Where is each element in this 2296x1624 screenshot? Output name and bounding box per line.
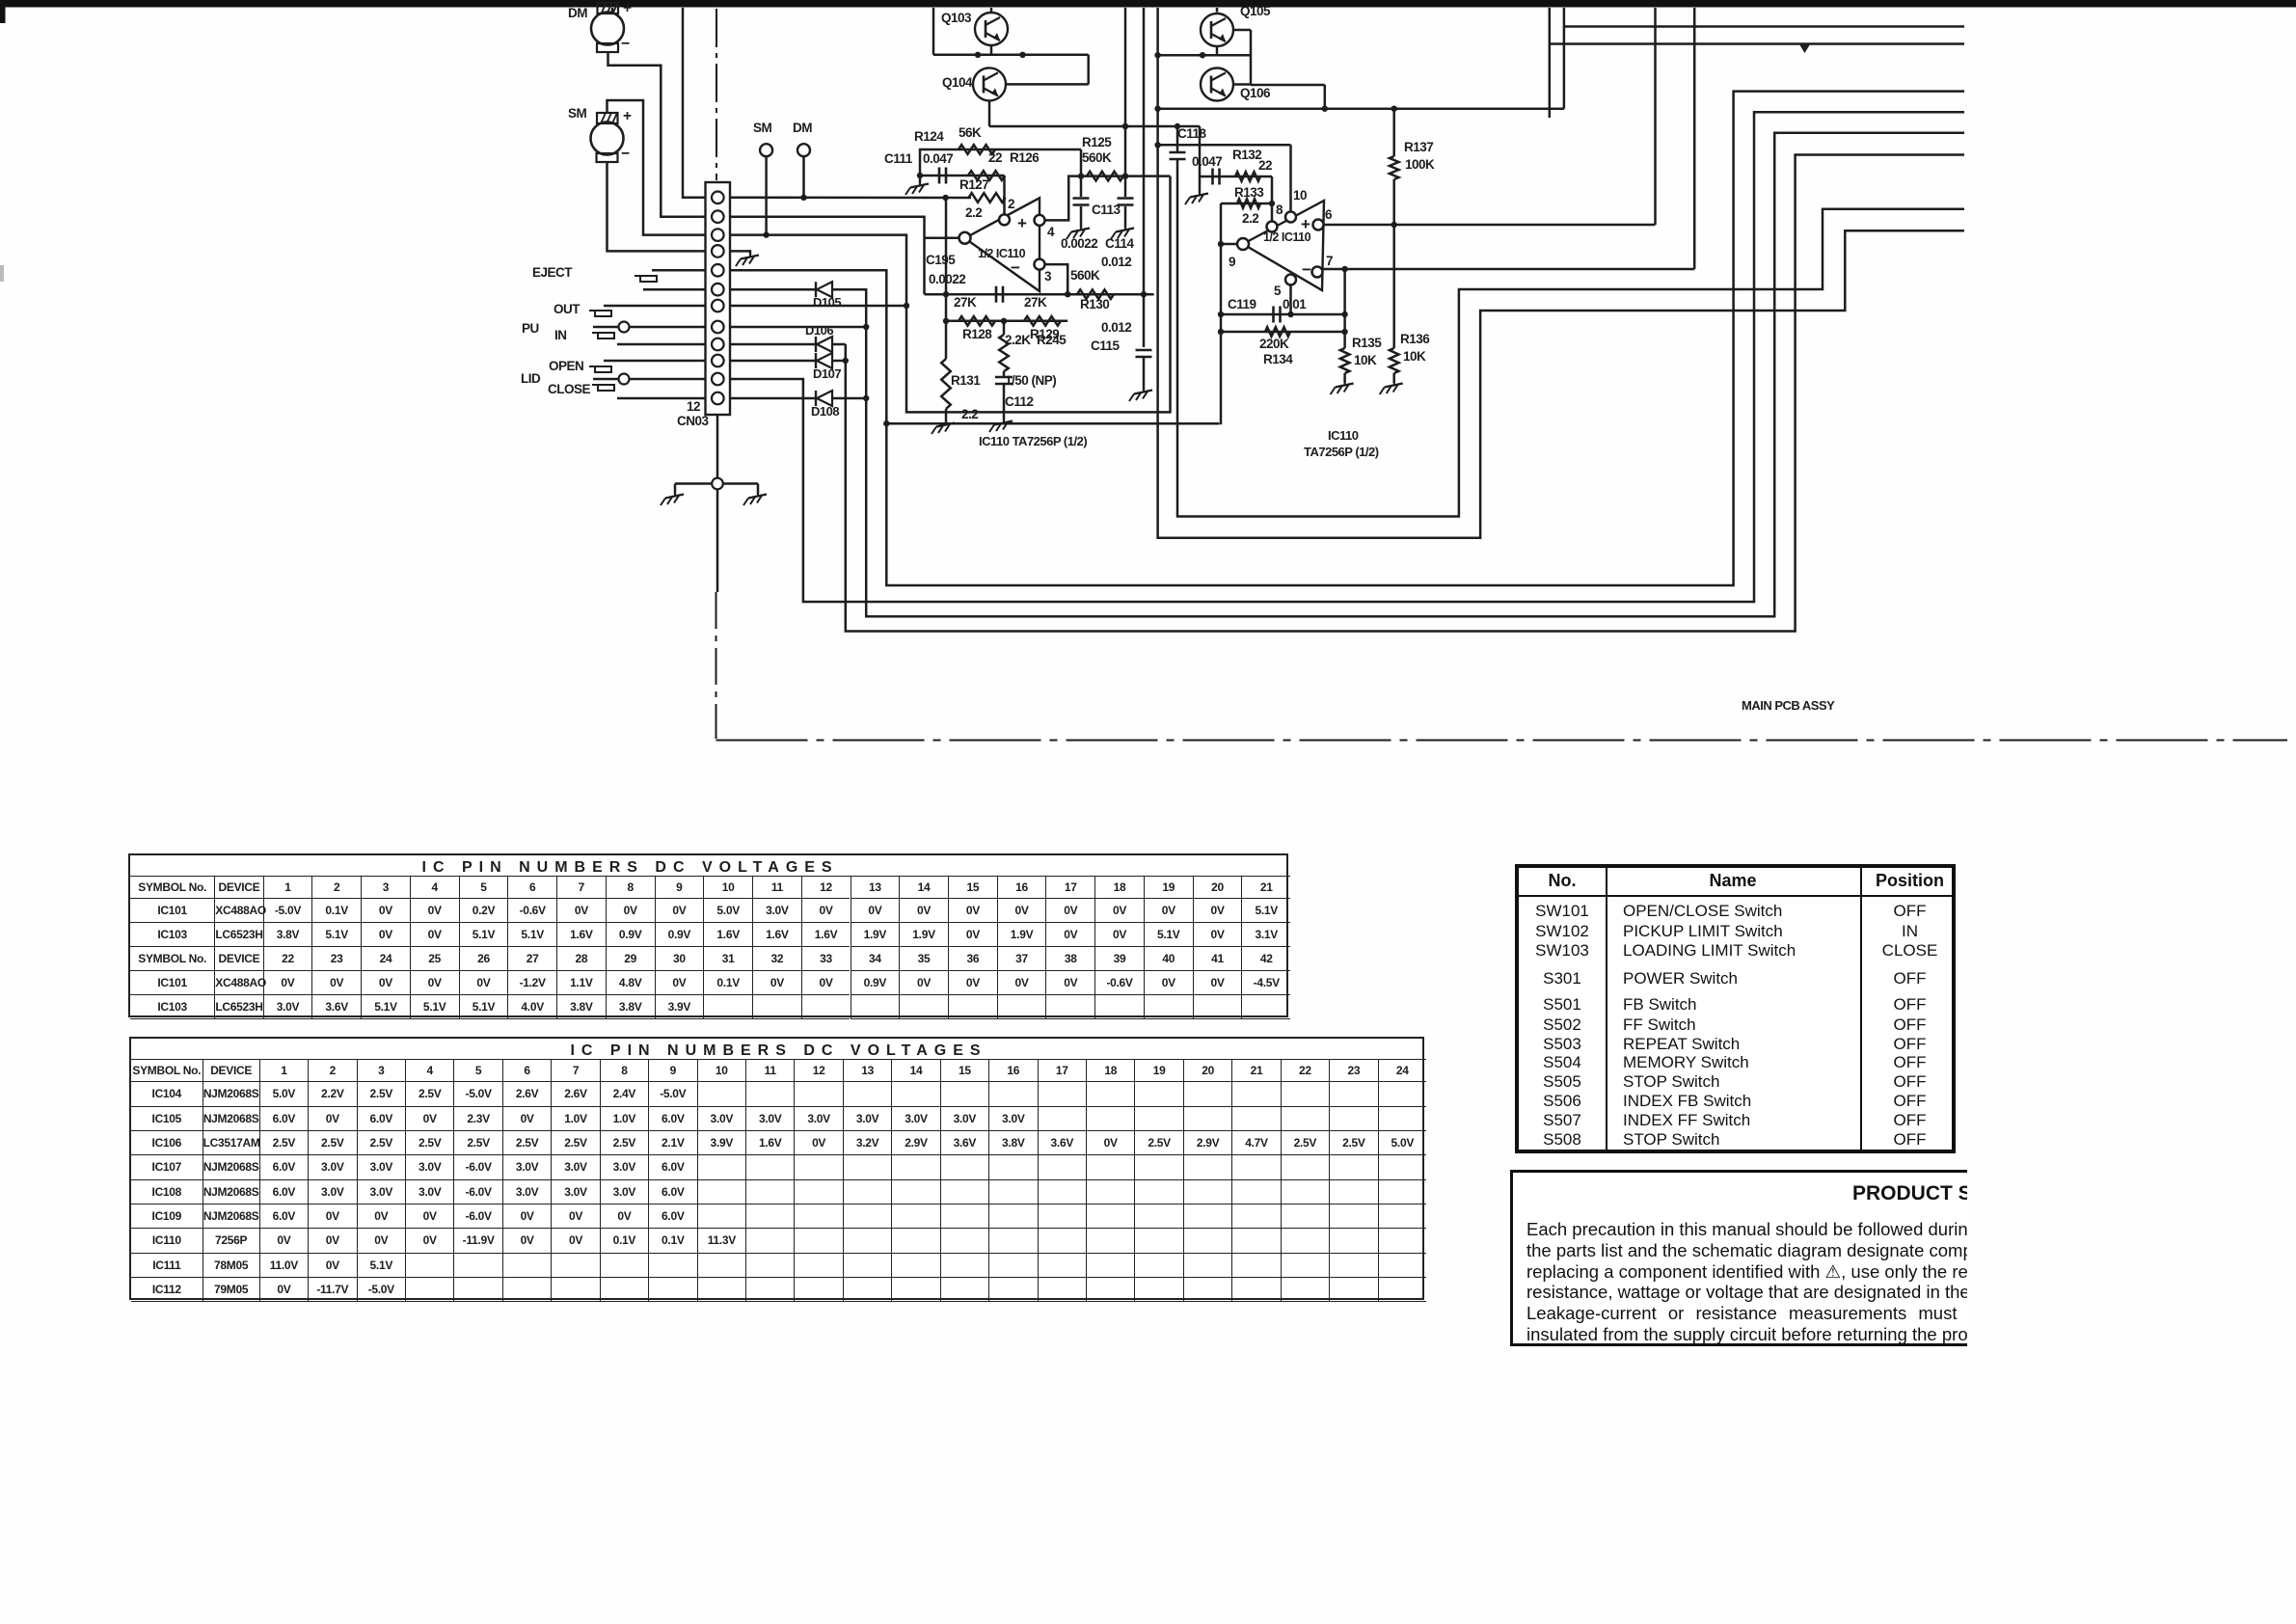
svg-text:LID: LID (521, 371, 541, 386)
svg-text:EJECT: EJECT (532, 265, 573, 280)
svg-text:6: 6 (1325, 207, 1333, 222)
svg-text:PU: PU (522, 321, 539, 336)
svg-text:+: + (623, 108, 632, 124)
svg-text:9: 9 (1229, 255, 1235, 269)
svg-text:R126: R126 (1010, 150, 1040, 165)
svg-text:560K: 560K (1070, 268, 1100, 283)
svg-text:R245: R245 (1037, 333, 1067, 347)
svg-text:3: 3 (1044, 269, 1052, 284)
svg-text:4: 4 (1047, 225, 1055, 239)
svg-text:22: 22 (988, 150, 1002, 165)
svg-text:27K: 27K (954, 295, 977, 310)
svg-text:10: 10 (1293, 188, 1307, 203)
svg-text:R134: R134 (1263, 352, 1293, 366)
svg-text:12: 12 (687, 399, 700, 414)
svg-text:0.01: 0.01 (1283, 297, 1307, 311)
svg-text:0.047: 0.047 (1192, 154, 1222, 169)
svg-text:0.047: 0.047 (923, 151, 953, 166)
svg-text:R131: R131 (951, 373, 981, 388)
svg-text:Q105: Q105 (1240, 4, 1271, 18)
svg-text:R128: R128 (962, 327, 992, 341)
svg-text:+: + (1017, 214, 1027, 232)
svg-text:DM: DM (793, 121, 812, 135)
svg-text:OPEN: OPEN (549, 359, 583, 373)
svg-text:2.2: 2.2 (965, 205, 982, 220)
svg-text:C113: C113 (1092, 203, 1121, 217)
svg-text:27K: 27K (1024, 295, 1047, 310)
svg-text:0.0022: 0.0022 (1061, 236, 1097, 251)
svg-text:1/2 IC110: 1/2 IC110 (1263, 230, 1311, 244)
svg-text:DM: DM (568, 6, 587, 20)
svg-text:−: − (1302, 260, 1311, 279)
svg-text:R136: R136 (1400, 332, 1430, 346)
svg-text:C114: C114 (1105, 236, 1135, 251)
svg-text:56K: 56K (959, 125, 982, 140)
svg-text:Q103: Q103 (941, 11, 972, 25)
svg-text:10K: 10K (1354, 353, 1377, 367)
svg-text:C112: C112 (1005, 394, 1034, 409)
svg-text:R130: R130 (1080, 297, 1109, 311)
svg-text:5: 5 (1274, 284, 1282, 298)
svg-text:R133: R133 (1234, 185, 1264, 200)
svg-text:D107: D107 (813, 366, 841, 381)
svg-text:2.2: 2.2 (1242, 211, 1258, 226)
svg-text:SM: SM (753, 121, 772, 135)
svg-text:R132: R132 (1232, 148, 1261, 162)
svg-text:TA7256P (1/2): TA7256P (1/2) (1304, 445, 1379, 459)
svg-text:−: − (621, 146, 630, 162)
svg-text:7: 7 (1326, 254, 1333, 268)
svg-text:Q104: Q104 (942, 75, 973, 90)
svg-text:2: 2 (1008, 197, 1014, 211)
svg-text:100K: 100K (1405, 157, 1435, 172)
svg-text:CN03: CN03 (677, 414, 710, 428)
svg-text:0.012: 0.012 (1101, 320, 1131, 335)
svg-text:C195: C195 (926, 253, 956, 267)
svg-text:IC110 TA7256P (1/2): IC110 TA7256P (1/2) (979, 434, 1087, 448)
svg-text:D106: D106 (805, 323, 833, 338)
svg-text:560K: 560K (1082, 150, 1112, 165)
svg-text:2.2: 2.2 (961, 407, 978, 421)
svg-text:D108: D108 (811, 404, 839, 419)
svg-text:2.2K: 2.2K (1005, 333, 1031, 347)
svg-text:C119: C119 (1228, 297, 1256, 311)
svg-text:C115: C115 (1091, 338, 1121, 353)
svg-text:−: − (621, 36, 630, 52)
svg-text:D105: D105 (813, 295, 841, 310)
svg-text:R127: R127 (959, 177, 988, 192)
svg-text:+: + (623, 0, 632, 16)
svg-text:SM: SM (568, 106, 587, 121)
svg-text:Q106: Q106 (1240, 86, 1271, 100)
svg-text:R135: R135 (1352, 336, 1382, 350)
svg-text:IC110: IC110 (1328, 428, 1359, 443)
svg-text:0.012: 0.012 (1101, 255, 1131, 269)
svg-text:MAIN PCB ASSY: MAIN PCB ASSY (1742, 698, 1835, 713)
svg-text:R124: R124 (914, 129, 944, 144)
svg-text:R137: R137 (1404, 140, 1433, 154)
svg-text:10K: 10K (1403, 349, 1426, 364)
svg-text:IN: IN (554, 328, 567, 342)
svg-text:−: − (1011, 258, 1020, 277)
svg-text:8: 8 (1276, 203, 1283, 217)
svg-text:22: 22 (1258, 158, 1272, 173)
svg-text:1/2 IC110: 1/2 IC110 (978, 247, 1026, 260)
svg-text:C118: C118 (1177, 126, 1207, 141)
svg-text:220K: 220K (1259, 337, 1289, 351)
svg-text:1/50 (NP): 1/50 (NP) (1005, 373, 1056, 388)
svg-text:R125: R125 (1082, 135, 1112, 149)
svg-text:OUT: OUT (554, 302, 581, 316)
svg-text:CLOSE: CLOSE (548, 382, 591, 396)
svg-text:C111: C111 (884, 151, 913, 166)
